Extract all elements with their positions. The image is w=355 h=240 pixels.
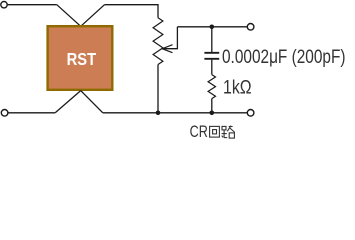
terminal T1 (top-left) <box>1 1 7 7</box>
caption kanji KAI (回) <box>210 126 220 137</box>
wire bottom-left diagonal <box>55 91 80 113</box>
wire top-right diagonal <box>81 5 105 27</box>
capacitor C plates <box>204 53 219 59</box>
terminal T2 (bottom-left) <box>1 110 8 117</box>
svg-text:0.0002μF (200pF): 0.0002μF (200pF) <box>222 46 346 68</box>
junction node at potentiometer bottom <box>156 111 161 116</box>
wire bottom-left horizontal <box>8 112 55 114</box>
caption kanji RO (路) <box>222 126 235 138</box>
potentiometer bottom lead wire <box>157 65 159 113</box>
box RST <box>48 26 113 90</box>
junction node at resistor bottom <box>210 111 215 116</box>
wire top horizontal to potentiometer <box>105 5 159 18</box>
wire bottom horizontal <box>103 112 248 114</box>
wire wiper to top-right terminal <box>177 26 247 28</box>
wire top-left horizontal <box>8 4 57 6</box>
arrowhead of wiper <box>162 45 172 53</box>
svg-text:1kΩ: 1kΩ <box>223 77 252 99</box>
resistor R 1k zigzag <box>208 75 215 99</box>
potentiometer wiper arrow <box>163 27 178 49</box>
potentiometer VR zigzag <box>153 18 163 65</box>
junction node at capacitor top <box>210 25 215 30</box>
wire capacitor top lead <box>211 27 213 52</box>
wire resistor bottom lead <box>211 99 213 113</box>
svg-text:RST: RST <box>67 49 97 69</box>
terminal T3 (top-right) <box>247 24 254 31</box>
wire capacitor bottom lead <box>211 60 213 75</box>
wire top-left diagonal <box>57 5 81 27</box>
wire bottom-right diagonal <box>81 91 103 113</box>
terminal T4 (bottom-right) <box>247 110 254 117</box>
svg-text:CR: CR <box>190 123 208 141</box>
